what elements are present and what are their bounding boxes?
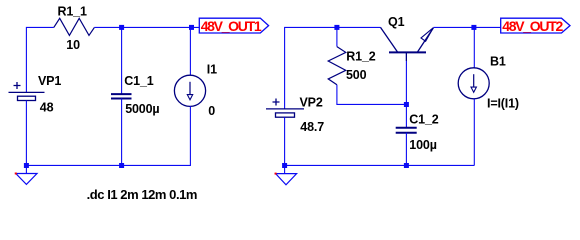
wire: resistor to flag1 (94, 26, 199, 28)
wire: right circuit bottom rail (285, 164, 475, 166)
svg-text:0: 0 (208, 104, 215, 118)
current source I1 (174, 75, 205, 106)
battery VP2 body rect (276, 113, 295, 117)
svg-text:R1_1: R1_1 (58, 4, 87, 18)
wire: VP2 minus to bottom rail (284, 117, 286, 165)
battery VP1 plate (9, 91, 45, 93)
svg-text:VP2: VP2 (300, 95, 323, 109)
node: junction ground left (24, 163, 29, 168)
svg-text:I=I(I1): I=I(I1) (487, 97, 519, 111)
wire: VP1 minus to bottom rail (25, 101, 27, 166)
wire: C1_2 bottom lead (405, 133, 407, 166)
net flag 48V_OUT1 (199, 18, 268, 34)
battery VP1 plus sign (14, 82, 21, 89)
wire: C1_2 top lead (405, 104, 407, 127)
battery VP1 body rect (18, 96, 36, 100)
svg-text:500: 500 (346, 68, 367, 82)
node: junction R1_2 top (334, 25, 339, 30)
svg-text:VP1: VP1 (38, 74, 61, 88)
svg-text:48V_OUT2: 48V_OUT2 (502, 18, 563, 34)
svg-text:48V_OUT1: 48V_OUT1 (201, 18, 262, 34)
wire: left circuit top rail corner (26, 27, 53, 92)
svg-text:48.7: 48.7 (300, 120, 324, 134)
wire: R1_2 top lead (336, 27, 338, 46)
wire: B1 top lead (473, 27, 475, 68)
battery VP2 plus sign (273, 99, 280, 106)
node: junction base / C1_2 top (404, 102, 409, 107)
current source B1 (458, 68, 489, 99)
wire: C1_1 bottom lead (121, 99, 123, 166)
wire: C1_1 top lead (121, 27, 123, 94)
svg-text:100µ: 100µ (409, 138, 436, 152)
resistor R1_1 (54, 18, 95, 35)
capacitor C1_2 (396, 128, 417, 133)
svg-text:Q1: Q1 (388, 15, 405, 29)
svg-text:10: 10 (66, 38, 80, 52)
node: junction C1_1 top (119, 25, 124, 30)
wire: B1 bottom lead (473, 99, 475, 166)
svg-text:C1_1: C1_1 (124, 74, 153, 88)
svg-text:5000µ: 5000µ (125, 102, 159, 116)
svg-text:I1: I1 (207, 63, 217, 77)
node: junction B1 top (471, 25, 476, 30)
wire: I1 bottom lead (189, 106, 191, 165)
svg-text:.dc I1 2m 12m 0.1m: .dc I1 2m 12m 0.1m (87, 187, 197, 202)
svg-text:R1_2: R1_2 (346, 49, 375, 63)
node: junction C1_2 bottom (404, 163, 409, 168)
battery VP2 plate (266, 108, 304, 110)
net flag 48V_OUT2 (501, 18, 570, 34)
node: junction I1 top (189, 25, 194, 30)
capacitor C1_1 (111, 94, 132, 98)
node: junction C1_1 bottom (119, 163, 124, 168)
wire: right circuit top rail corner (285, 27, 381, 109)
ground (right) (275, 165, 297, 184)
transistor Q1 (381, 27, 434, 61)
resistor R1_2 (328, 47, 346, 85)
svg-text:B1: B1 (490, 54, 506, 68)
node: junction ground right (282, 163, 287, 168)
wire: I1 top lead (189, 27, 191, 75)
svg-text:C1_2: C1_2 (409, 112, 438, 126)
wire: emitter to flag2 (434, 26, 501, 28)
svg-text:48: 48 (40, 101, 54, 115)
ground (left) (15, 165, 37, 184)
wire: left circuit bottom rail (26, 164, 191, 166)
wire: R1_2 bottom to base junction (337, 52, 407, 104)
